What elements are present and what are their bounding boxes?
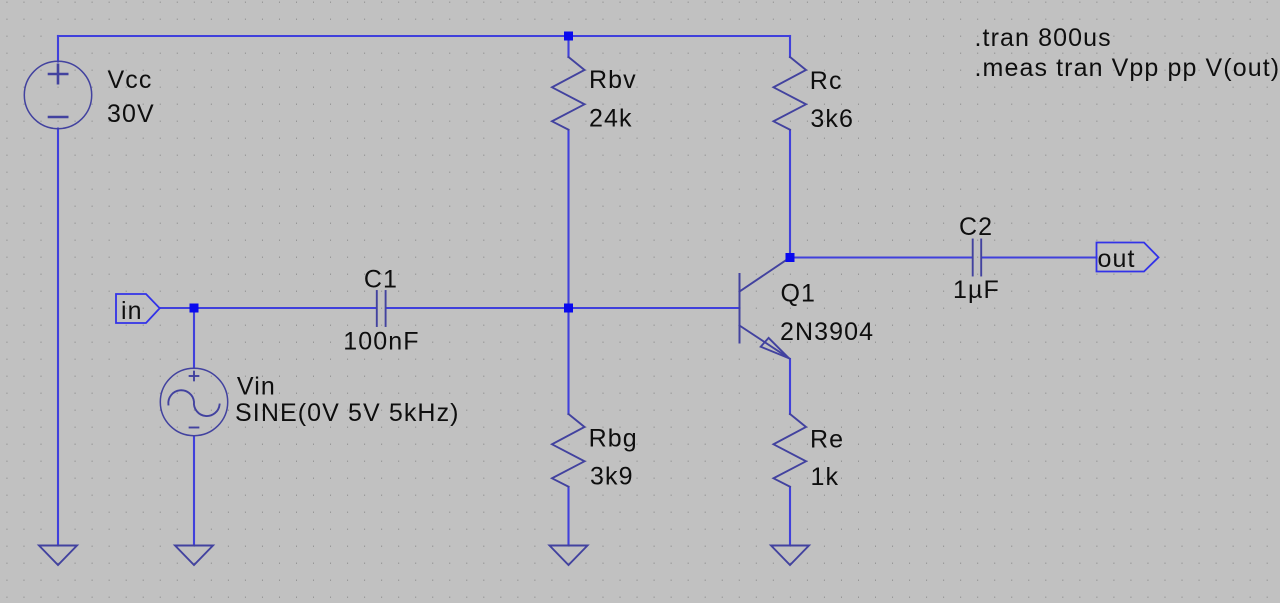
Vcc plus sign: [49, 65, 67, 83]
svg-text:Vin: Vin: [237, 373, 276, 401]
wire Re bottom to ground: [789, 487, 791, 545]
wire Vin top: [193, 308, 195, 368]
wire Rbg bottom to ground: [567, 487, 569, 545]
wire C2 to out port: [982, 256, 1097, 258]
resistor Rc zigzag: [774, 57, 807, 130]
wire Vcc top: [57, 36, 59, 62]
svg-text:3k9: 3k9: [590, 463, 634, 491]
Vcc minus sign: [49, 116, 67, 119]
voltage source Vin circle: [160, 368, 227, 435]
ground (Rbg): [550, 546, 588, 566]
resistor Rbg zigzag: [552, 414, 585, 487]
ground (Vcc): [39, 546, 77, 566]
node junction squares: [190, 32, 795, 313]
svg-text:2N3904: 2N3904: [780, 318, 874, 346]
wire top rail: [58, 35, 790, 37]
wire in port to C1: [160, 307, 376, 309]
junction in / Vin: [190, 304, 199, 313]
wire C1 to base: [387, 307, 740, 309]
wire Rbv bottom to node: [567, 130, 569, 414]
wire Rc top: [789, 36, 791, 57]
junction top rail / Rbv: [564, 32, 573, 41]
svg-text:Rbv: Rbv: [589, 66, 637, 94]
svg-text:30V: 30V: [107, 100, 155, 128]
svg-text:in: in: [121, 297, 143, 325]
Q1 emitter arrow: [761, 338, 789, 358]
capacitor C1 plates: [377, 291, 386, 326]
wire Vin bottom to ground: [193, 436, 195, 545]
svg-text:Rbg: Rbg: [589, 425, 638, 453]
svg-text:C2: C2: [959, 213, 993, 241]
svg-text:.meas tran Vpp pp V(out): .meas tran Vpp pp V(out): [975, 54, 1280, 82]
port in: [116, 294, 160, 323]
ground (Vin): [175, 546, 213, 566]
resistor Rbv zigzag: [552, 57, 585, 130]
svg-text:3k6: 3k6: [810, 105, 854, 133]
svg-text:Q1: Q1: [781, 279, 817, 307]
junction collector: [786, 253, 795, 262]
transistor Q1 body: [739, 274, 741, 343]
svg-text:SINE(0V 5V 5kHz): SINE(0V 5V 5kHz): [235, 399, 460, 427]
capacitor C2 plates: [973, 240, 982, 276]
svg-text:Rc: Rc: [810, 67, 843, 95]
svg-text:C1: C1: [364, 266, 398, 294]
svg-text:1µF: 1µF: [953, 276, 1000, 304]
port out: [1097, 243, 1159, 272]
resistor Re zigzag: [774, 414, 807, 487]
junction base / Rbv-Rbg: [564, 304, 573, 313]
svg-text:24k: 24k: [589, 105, 633, 133]
wire collector node to C2: [790, 256, 972, 258]
svg-text:1k: 1k: [811, 463, 840, 491]
Vin sine squiggle: [168, 390, 219, 416]
wire emitter to Re: [789, 359, 791, 414]
voltage source V1 circle (Vcc): [24, 61, 91, 128]
svg-text:out: out: [1098, 245, 1136, 273]
wire Vcc bottom to ground: [57, 129, 59, 546]
svg-text:.tran 800us: .tran 800us: [975, 24, 1112, 52]
svg-text:100nF: 100nF: [343, 327, 419, 355]
svg-text:Vcc: Vcc: [108, 66, 153, 94]
wire Rc bottom to collector node: [789, 130, 791, 258]
wire Rbv top: [567, 36, 569, 57]
Vin minus sign: [190, 427, 199, 429]
ground (Re): [771, 546, 809, 566]
Vin plus sign: [190, 375, 199, 377]
svg-text:Re: Re: [810, 426, 844, 454]
